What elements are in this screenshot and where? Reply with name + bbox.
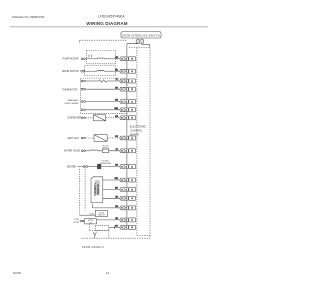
micro switch S3	[85, 219, 97, 224]
svg-text:3: 3	[126, 118, 127, 120]
inline connector plug	[120, 69, 128, 73]
thermistor connector	[81, 80, 83, 82]
hi-limit thermostat TS1	[88, 166, 98, 168]
inline connector plug	[120, 165, 128, 169]
pump motor connector	[81, 58, 83, 60]
svg-text:3: 3	[126, 81, 127, 83]
svg-text:3: 3	[126, 101, 127, 103]
svg-text:3: 3	[131, 59, 132, 61]
door switch S2	[95, 210, 107, 216]
svg-text:6/2/18: 6/2/18	[13, 271, 21, 275]
wire bottom link vertical	[108, 227, 110, 230]
vent fan connector	[81, 137, 83, 139]
door interlock lead 1	[137, 38, 139, 40]
inline connector plug	[120, 116, 128, 120]
inline connector plug	[120, 225, 128, 229]
svg-text:SWITCH: SWITCH	[102, 148, 109, 150]
turbidity wire 1	[103, 179, 120, 181]
svg-text:DISPENSER: DISPENSER	[68, 118, 82, 120]
wire door interlock pin 1 to right bus	[142, 43, 150, 47]
dispenser actuator	[85, 117, 93, 119]
board pin 1	[129, 218, 136, 222]
board pin 4	[129, 196, 136, 200]
wire micro switch down	[88, 224, 90, 230]
door interlock connector pin 1	[140, 40, 144, 43]
svg-text:2: 2	[122, 118, 123, 120]
board pin 3	[129, 57, 136, 61]
svg-text:CORD: CORD	[73, 222, 79, 224]
turbidity sensor module A1	[91, 177, 103, 203]
svg-text:1: 1	[131, 101, 132, 103]
svg-text:2: 2	[122, 198, 123, 200]
svg-text:DRAIN MOTOR: DRAIN MOTOR	[62, 70, 79, 73]
heater connector	[83, 166, 85, 168]
svg-text:2: 2	[122, 189, 123, 191]
svg-text:SENSOR: SENSOR	[97, 184, 100, 194]
svg-text:SWITCH: SWITCH	[98, 215, 105, 217]
pump motor winding	[85, 58, 97, 60]
wire bottom link horizontal	[89, 229, 108, 231]
inline connector plug	[120, 178, 128, 182]
inline connector plug	[120, 196, 128, 200]
board pin 2	[129, 108, 136, 112]
splice junction	[93, 232, 96, 236]
wire link down to bus	[108, 230, 110, 238]
svg-text:DOOR INTERLOCK SWITCH: DOOR INTERLOCK SWITCH	[122, 34, 160, 37]
svg-text:2: 2	[122, 151, 123, 153]
svg-text:WH: WH	[115, 108, 119, 110]
board pin 1	[129, 79, 136, 83]
svg-text:ELECTRONIC: ELECTRONIC	[130, 125, 146, 128]
svg-text:2: 2	[122, 110, 123, 112]
wire right bus to bottom bus	[81, 236, 151, 239]
svg-text:WIRING DIAGRAM: WIRING DIAGRAM	[86, 21, 127, 26]
cabinet boundary dashed top	[80, 39, 127, 41]
water valve connector	[81, 150, 83, 152]
thermistor return wire	[81, 88, 83, 90]
inline connector plug	[120, 57, 128, 61]
connector chain wire	[126, 44, 128, 228]
board pin 1	[129, 100, 136, 104]
board pin 3	[129, 188, 136, 192]
svg-text:3: 3	[126, 208, 127, 210]
svg-text:2: 2	[122, 227, 123, 229]
inline connector plug	[120, 100, 128, 104]
pump motor pin ticks	[88, 55, 90, 58]
svg-text:2: 2	[122, 89, 123, 91]
electronic control board right edge	[149, 48, 151, 236]
svg-text:14: 14	[106, 271, 109, 275]
board pin 3	[129, 116, 136, 120]
electronic control board U1 top edge	[129, 47, 150, 49]
board pin 4	[129, 69, 136, 73]
wash level sensor wire 2	[81, 109, 83, 111]
ground return wire	[109, 226, 120, 228]
svg-text:3: 3	[131, 189, 132, 191]
inline connector plug	[120, 206, 128, 210]
board pin 1	[129, 165, 136, 169]
svg-text:3: 3	[126, 198, 127, 200]
svg-text:2: 2	[122, 81, 123, 83]
board pin 3	[129, 225, 136, 229]
wire door interlock pin 3 to node	[127, 42, 138, 44]
svg-text:LEVEL SENSE: LEVEL SENSE	[64, 103, 79, 105]
splice enclosure	[95, 225, 109, 230]
board pin 6	[129, 136, 136, 140]
svg-text:HI-LIMIT: HI-LIMIT	[102, 160, 110, 162]
svg-text:VENT FAN: VENT FAN	[67, 137, 79, 140]
svg-text:3: 3	[126, 189, 127, 191]
vent fan motor	[85, 137, 94, 139]
svg-text:WATER VALVE: WATER VALVE	[64, 150, 80, 153]
svg-text:1: 1	[131, 220, 132, 222]
svg-text:4: 4	[131, 198, 132, 200]
svg-text:1: 1	[131, 81, 132, 83]
svg-text:Publication No. 5995547367: Publication No. 5995547367	[12, 15, 45, 19]
svg-text:3: 3	[126, 220, 127, 222]
svg-text:3: 3	[126, 71, 127, 73]
inline connector plug	[120, 79, 128, 83]
header rule	[10, 26, 208, 28]
inline connector plug	[120, 188, 128, 192]
drain motor winding	[85, 70, 97, 72]
svg-text:THERMOSTAT: THERMOSTAT	[99, 162, 112, 165]
thermistor element RT1	[85, 80, 98, 82]
wire turbidity module to door switch row	[91, 204, 93, 208]
svg-text:2: 2	[122, 59, 123, 61]
pump motor enclosure	[87, 50, 116, 63]
svg-text:3: 3	[126, 180, 127, 182]
svg-text:2: 2	[131, 180, 132, 182]
cabinet boundary corner tick	[79, 40, 81, 43]
door interlock switch S1	[121, 32, 161, 38]
drain motor enclosure	[85, 66, 116, 76]
inline connector plug	[120, 136, 128, 140]
turbidity wire 2	[103, 189, 120, 191]
dispenser connector	[81, 117, 83, 119]
svg-text:FROM MODELS: FROM MODELS	[82, 246, 104, 249]
water valve coil	[86, 150, 91, 152]
svg-text:3: 3	[131, 227, 132, 229]
svg-text:2: 2	[122, 71, 123, 73]
svg-text:4: 4	[131, 71, 132, 73]
wire L1 into door switch	[80, 214, 96, 216]
svg-text:3: 3	[126, 138, 127, 140]
svg-text:3: 3	[126, 166, 127, 168]
svg-text:3: 3	[126, 89, 127, 91]
svg-text:3: 3	[126, 151, 127, 153]
electronic control board left edge	[136, 48, 138, 236]
svg-text:2: 2	[122, 220, 123, 222]
sump assembly enclosure	[80, 78, 126, 113]
svg-text:2: 2	[122, 138, 123, 140]
svg-text:WASH AND: WASH AND	[67, 99, 79, 102]
svg-text:HEATER: HEATER	[67, 166, 77, 169]
svg-text:3: 3	[126, 59, 127, 61]
wire thermostat feed down	[84, 169, 86, 211]
wire L1 feed down	[79, 169, 81, 215]
door interlock lead 2	[141, 38, 143, 40]
inline connector plug	[120, 108, 128, 112]
door interlock connector pin 3	[136, 40, 140, 43]
svg-text:3: 3	[126, 110, 127, 112]
svg-text:CONTROL: CONTROL	[130, 130, 143, 133]
svg-text:3: 3	[131, 118, 132, 120]
electronic control board bottom edge	[137, 235, 150, 237]
svg-text:LINE: LINE	[75, 219, 80, 221]
svg-text:3: 3	[126, 227, 127, 229]
turbidity wire 3	[103, 197, 120, 199]
svg-text:2: 2	[122, 208, 123, 210]
line cord connector	[80, 220, 82, 222]
board pin 2	[129, 87, 136, 91]
svg-text:2: 2	[131, 208, 132, 210]
flood switch FS1	[102, 149, 109, 152]
inline connector plug	[120, 218, 128, 222]
wash level sensor wire 1	[81, 101, 83, 103]
svg-text:LFID2426TF4B0A: LFID2426TF4B0A	[98, 14, 125, 18]
svg-text:2: 2	[122, 101, 123, 103]
svg-text:2: 2	[131, 89, 132, 91]
svg-text:5: 5	[131, 151, 132, 153]
svg-text:2: 2	[122, 166, 123, 168]
inline connector plug	[120, 87, 128, 91]
svg-text:THERMISTOR: THERMISTOR	[62, 89, 78, 91]
board pin 2	[129, 178, 136, 182]
svg-text:PUMP MOTOR: PUMP MOTOR	[63, 59, 79, 61]
svg-text:6: 6	[131, 138, 132, 140]
inline connector plug	[120, 149, 128, 153]
drain motor connector	[81, 70, 83, 72]
board pin 5	[129, 149, 136, 153]
svg-text:1: 1	[131, 166, 132, 168]
svg-text:WH: WH	[115, 178, 119, 180]
board pin 2	[129, 206, 136, 210]
svg-text:MICRO: MICRO	[88, 220, 94, 222]
svg-text:2: 2	[122, 180, 123, 182]
wire micro switch to board	[97, 219, 120, 221]
svg-text:2: 2	[131, 110, 132, 112]
